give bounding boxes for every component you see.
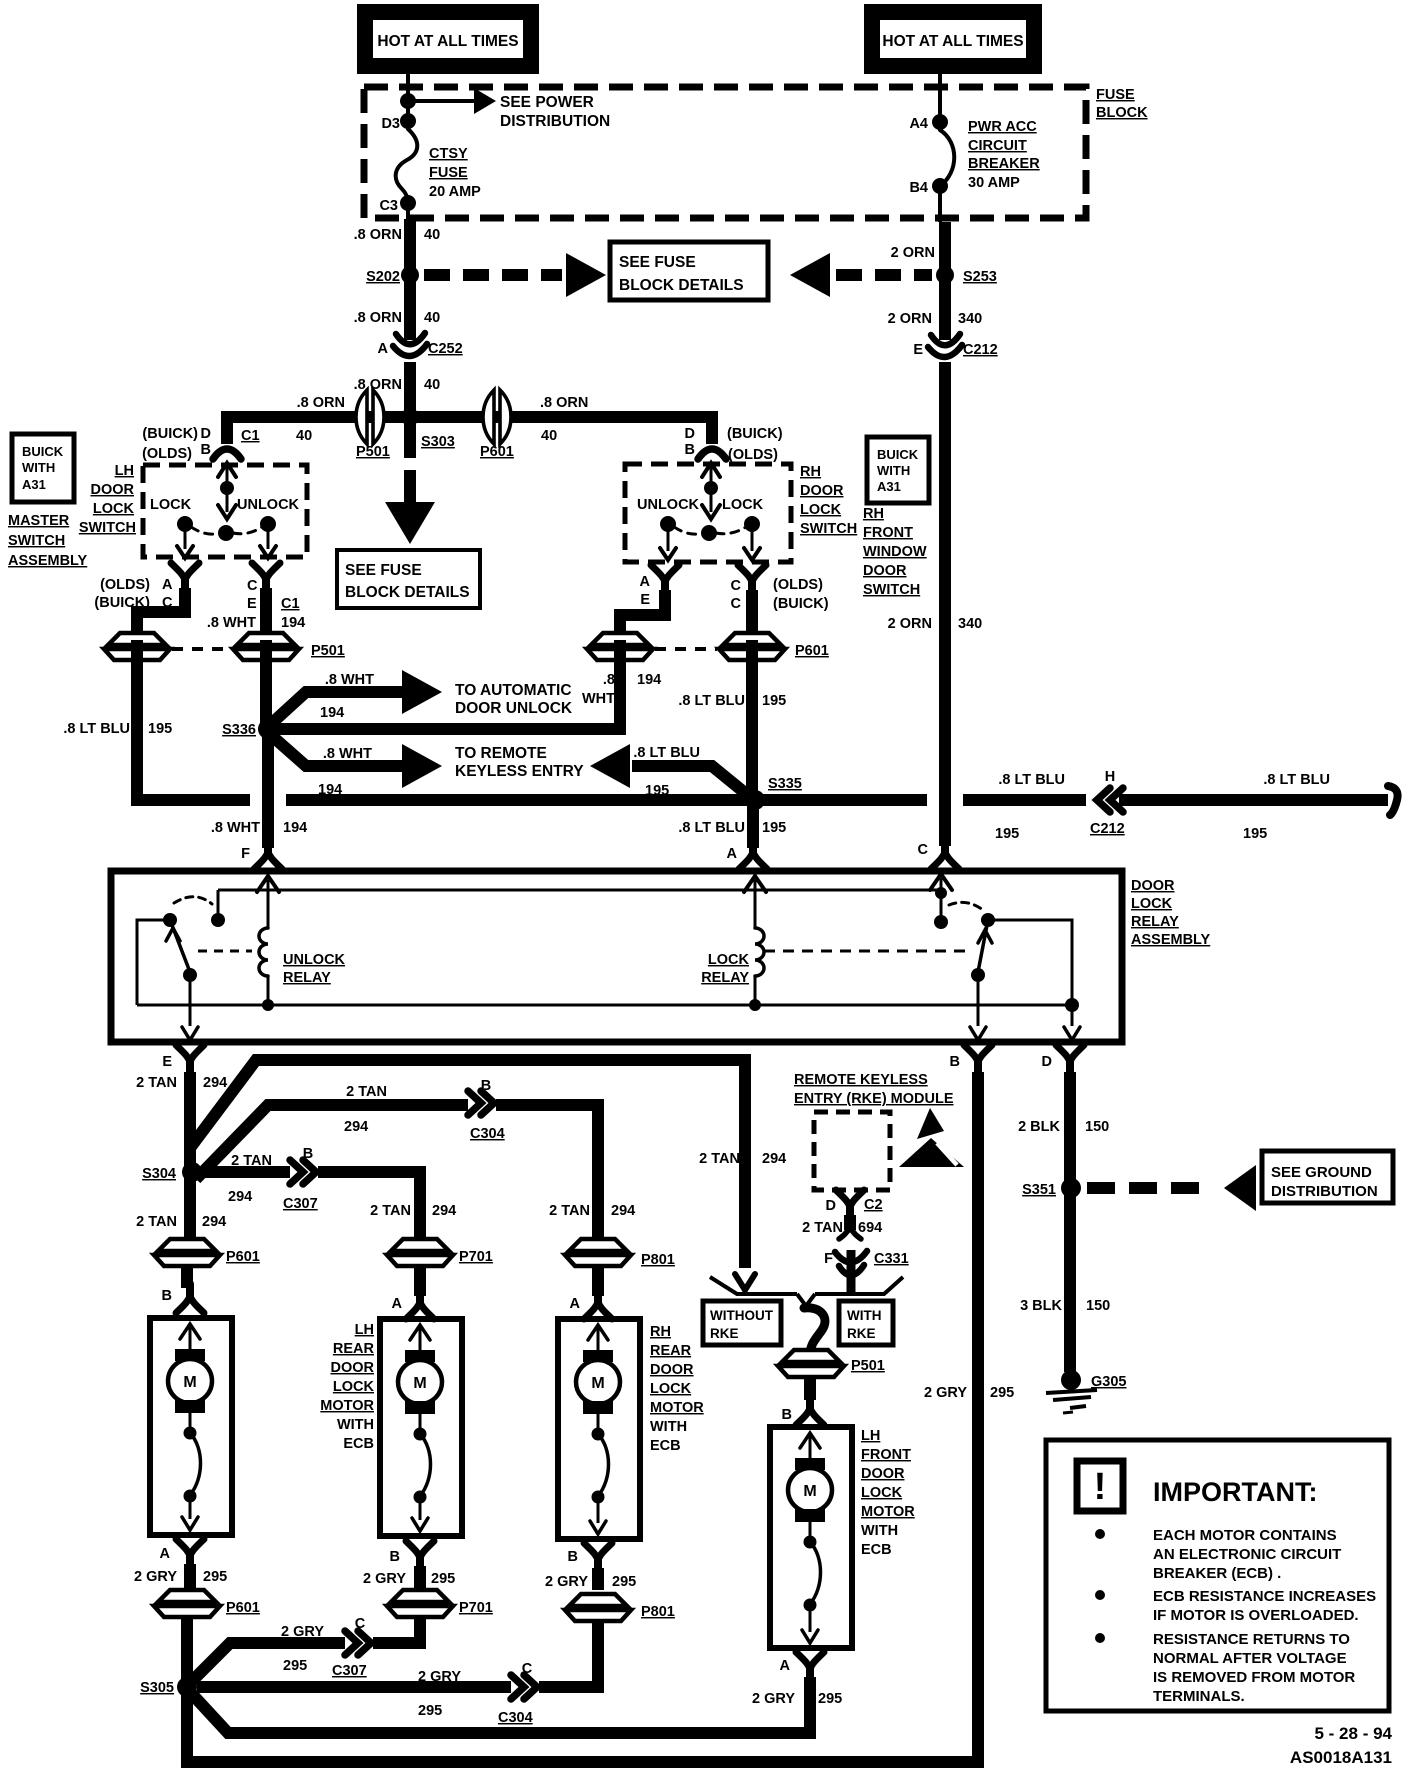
svg-text:S304: S304 (142, 1166, 176, 1182)
unlock output to pin E (189, 979, 192, 1026)
branch via C304 to P801 return (197, 1622, 598, 1687)
RKE option bracket (710, 1277, 797, 1294)
relay pin F terminal (264, 840, 272, 854)
svg-text:B: B (303, 1146, 313, 1162)
svg-text:294: 294 (203, 1075, 227, 1091)
svg-text:IS REMOVED FROM MOTOR: IS REMOVED FROM MOTOR (1153, 1669, 1355, 1686)
wire drop to LH switch pin D/B (221, 411, 233, 444)
svg-text:295: 295 (990, 1385, 1014, 1401)
svg-text:A: A (392, 1296, 403, 1312)
relay pin C entry arrow (930, 874, 952, 890)
relay pin A entry arrow (744, 876, 766, 892)
svg-text:150: 150 (1086, 1298, 1110, 1314)
RH switch pin C/C terminal (748, 580, 756, 594)
svg-text:ENTRY (RKE) MODULE: ENTRY (RKE) MODULE (794, 1091, 954, 1107)
power tag HOT AT ALL TIMES (right) (864, 4, 1042, 74)
svg-text:M: M (183, 1374, 196, 1391)
LH switch UNLOCK output arrow (267, 529, 270, 549)
svg-text:C307: C307 (332, 1663, 367, 1679)
svg-text:SWITCH: SWITCH (800, 521, 857, 537)
splice S253 (936, 266, 954, 284)
RH switch UNLOCK contact (660, 516, 676, 532)
svg-text:S253: S253 (963, 269, 997, 285)
svg-text:C: C (355, 1616, 366, 1632)
svg-text:S305: S305 (140, 1680, 174, 1696)
svg-text:2 TAN: 2 TAN (136, 1214, 177, 1230)
svg-text:P501: P501 (311, 643, 345, 659)
arrow SEE POWER DISTRIBUTION (408, 99, 474, 103)
branch via C307 to P701 return (192, 1618, 420, 1681)
arrow from S335 to remote keyless entry (590, 744, 630, 788)
svg-text:194: 194 (320, 705, 344, 721)
svg-text:2 TAN: 2 TAN (802, 1220, 843, 1236)
LH switch pin A/C terminal (181, 578, 189, 592)
main feed wire 2 ORN 340 down to relay terminal C (939, 362, 951, 846)
svg-text:C304: C304 (470, 1126, 505, 1142)
svg-text:UNLOCK: UNLOCK (637, 497, 700, 513)
svg-text:TERMINALS.: TERMINALS. (1153, 1688, 1245, 1705)
svg-text:B: B (162, 1288, 172, 1304)
branch to C304 (196, 1105, 598, 1240)
svg-text:194: 194 (281, 615, 305, 631)
svg-text:C: C (731, 578, 742, 594)
svg-text:M: M (803, 1483, 816, 1500)
svg-text:40: 40 (541, 428, 557, 444)
grommet P601 (LR feed) (154, 1239, 220, 1266)
LH front motor pin A terminal (806, 1667, 814, 1681)
svg-text:P501: P501 (851, 1358, 885, 1374)
svg-text:D3: D3 (381, 116, 400, 132)
lock relay coil bottom node (749, 999, 761, 1011)
svg-text:FUSE: FUSE (1096, 87, 1135, 103)
svg-text:S335: S335 (768, 776, 802, 792)
svg-text:.8 ORN: .8 ORN (354, 377, 402, 393)
svg-text:DOOR: DOOR (1131, 878, 1175, 894)
svg-text:.8 LT BLU: .8 LT BLU (678, 820, 745, 836)
svg-text:A31: A31 (22, 477, 46, 492)
svg-text:.8 ORN: .8 ORN (354, 310, 402, 326)
svg-text:EACH MOTOR CONTAINS: EACH MOTOR CONTAINS (1153, 1527, 1337, 1544)
svg-text:C307: C307 (283, 1196, 318, 1212)
svg-text:(BUICK): (BUICK) (773, 596, 829, 612)
svg-text:AN ELECTRONIC CIRCUIT: AN ELECTRONIC CIRCUIT (1153, 1546, 1341, 1563)
svg-text:3 BLK: 3 BLK (1020, 1298, 1062, 1314)
dashed arrow S253 to SEE FUSE BLOCK DETAILS (836, 269, 932, 281)
svg-text:P801: P801 (641, 1252, 675, 1268)
svg-text:NORMAL AFTER VOLTAGE: NORMAL AFTER VOLTAGE (1153, 1650, 1347, 1667)
grommet P801 (feed) (565, 1239, 631, 1266)
RKE module dashed box (814, 1112, 890, 1190)
svg-text:FRONT: FRONT (863, 525, 913, 541)
svg-text:SWITCH: SWITCH (8, 533, 65, 549)
svg-text:C331: C331 (874, 1251, 909, 1267)
svg-text:RH: RH (650, 1324, 671, 1340)
svg-text:194: 194 (283, 820, 307, 836)
svg-text:B: B (950, 1054, 960, 1070)
grommet P501 left pair (104, 633, 170, 660)
unlock relay coil bottom node (262, 999, 274, 1011)
svg-text:S202: S202 (366, 269, 400, 285)
svg-text:BUICK: BUICK (22, 444, 64, 459)
svg-text:WITH: WITH (337, 1417, 374, 1433)
svg-text:C212: C212 (963, 342, 998, 358)
unlock switch blade (170, 920, 190, 972)
svg-text:(OLDS): (OLDS) (728, 447, 778, 463)
svg-text:F: F (824, 1251, 833, 1267)
svg-text:(OLDS): (OLDS) (100, 577, 150, 593)
svg-text:40: 40 (296, 428, 312, 444)
left rail to bottom bus (137, 920, 170, 1005)
tag box BUICK WITH A31 (right) (867, 437, 929, 503)
svg-text:.8 LT BLU: .8 LT BLU (63, 721, 130, 737)
svg-text:A: A (727, 846, 738, 862)
svg-text:MASTER: MASTER (8, 513, 70, 529)
lock switch fixed contact (934, 915, 948, 929)
svg-text:P601: P601 (226, 1600, 260, 1616)
svg-text:DOOR UNLOCK: DOOR UNLOCK (455, 700, 573, 717)
svg-text:.8 WHT: .8 WHT (323, 746, 372, 762)
lock switch blade (978, 920, 988, 972)
svg-text:WITHOUT: WITHOUT (710, 1308, 774, 1323)
relay pin C terminal (941, 840, 949, 854)
svg-text:C304: C304 (498, 1710, 533, 1726)
svg-text:RKE: RKE (710, 1326, 739, 1341)
connector C1 at RH switch (698, 449, 726, 459)
svg-text:2 ORN: 2 ORN (891, 245, 935, 261)
svg-text:294: 294 (611, 1203, 635, 1219)
svg-text:A: A (160, 1546, 171, 1562)
RH switch common terminal arrows (702, 463, 720, 477)
svg-text:S303: S303 (421, 434, 455, 450)
svg-text:LOCK: LOCK (333, 1379, 375, 1395)
relay pin B terminal (974, 1060, 982, 1074)
svg-text:RKE: RKE (847, 1326, 876, 1341)
RKE pin D terminal C2 (846, 1205, 854, 1219)
svg-text:S336: S336 (222, 722, 256, 738)
svg-text:P701: P701 (459, 1600, 493, 1616)
svg-text:DOOR: DOOR (91, 482, 135, 498)
wire 2 GRY 295 from relay pin B (972, 1072, 984, 1768)
svg-text:LOCK: LOCK (1131, 896, 1173, 912)
svg-text:2 GRY: 2 GRY (418, 1669, 461, 1685)
relay pin A terminal (749, 840, 757, 854)
wire .8 ORN 40 below S202 (404, 280, 416, 340)
grommet P501 (LH front feed) (778, 1350, 844, 1377)
svg-text:2 ORN: 2 ORN (888, 311, 932, 327)
svg-text:SEE FUSE: SEE FUSE (619, 254, 696, 271)
svg-text:LH: LH (861, 1428, 880, 1444)
grommet P801 (return) (565, 1594, 631, 1621)
branch to LH front motor pin A (192, 1681, 810, 1733)
svg-text:WINDOW: WINDOW (863, 544, 927, 560)
svg-text:40: 40 (424, 377, 440, 393)
grommet P601 right pair (587, 633, 653, 660)
svg-text:D: D (685, 426, 695, 442)
splice S351 (1061, 1178, 1081, 1198)
svg-text:P601: P601 (480, 444, 514, 460)
wire .8 ORN 40 below fuse block (404, 219, 416, 270)
wire 2 GRY 295 below motor 1 (184, 1564, 196, 1590)
wire from P601 return to S305 (181, 1616, 193, 1687)
svg-text:ASSEMBLY: ASSEMBLY (8, 553, 88, 569)
svg-text:P801: P801 (641, 1604, 675, 1620)
wire 3 BLK 150 below S351 (1064, 1192, 1076, 1372)
svg-text:A: A (780, 1658, 791, 1674)
svg-text:REMOTE KEYLESS: REMOTE KEYLESS (794, 1072, 928, 1088)
svg-text:WITH: WITH (861, 1523, 898, 1539)
wire 2 TAN 294 from pin E (184, 1072, 196, 1176)
svg-text:C2: C2 (864, 1197, 883, 1213)
svg-text:2 BLK: 2 BLK (1018, 1119, 1060, 1135)
svg-text:.8 WHT: .8 WHT (207, 615, 256, 631)
unlock switch fixed contact (217, 890, 220, 916)
connector C307 pin C (return) (345, 1635, 373, 1652)
svg-text:295: 295 (431, 1571, 455, 1587)
svg-text:.8 LT BLU: .8 LT BLU (678, 693, 745, 709)
svg-text:.8 LT BLU: .8 LT BLU (1263, 772, 1330, 788)
right rail from pivot to pin D (988, 920, 1072, 1026)
grommet P701 (feed) (387, 1239, 453, 1266)
unlock relay actuation link (198, 950, 252, 953)
svg-text:DISTRIBUTION: DISTRIBUTION (1271, 1183, 1378, 1200)
ground G305 (1061, 1370, 1081, 1390)
svg-text:340: 340 (958, 616, 982, 632)
relay pin D terminal (1066, 1060, 1074, 1074)
svg-text:SWITCH: SWITCH (863, 582, 920, 598)
svg-text:20 AMP: 20 AMP (429, 184, 481, 200)
svg-text:2 GRY: 2 GRY (363, 1571, 406, 1587)
svg-text:30 AMP: 30 AMP (968, 175, 1020, 191)
wire .8 ORN horizontal run to door lock switches (227, 411, 712, 423)
RH switch LOCK output arrow (751, 529, 754, 551)
splice S305 (177, 1677, 197, 1697)
svg-text:ECB: ECB (343, 1436, 374, 1452)
wire .8 LT BLU 195 to relay pin A (747, 805, 759, 848)
svg-text:C: C (731, 596, 742, 612)
unlock relay coil (259, 928, 268, 976)
svg-text:(OLDS): (OLDS) (773, 577, 823, 593)
node C to top bus (935, 887, 947, 899)
svg-text:E: E (162, 1054, 172, 1070)
svg-text:694: 694 (858, 1220, 882, 1236)
svg-text:B: B (390, 1549, 400, 1565)
svg-text:295: 295 (203, 1569, 227, 1585)
svg-text:LH: LH (115, 463, 134, 479)
svg-text:ASSEMBLY: ASSEMBLY (1131, 932, 1211, 948)
splice S304 (182, 1162, 202, 1182)
wire from pin A/E down-left (620, 590, 665, 634)
svg-text:A31: A31 (877, 479, 901, 494)
inline connector P601 (483, 390, 511, 444)
svg-text:2 GRY: 2 GRY (281, 1624, 324, 1640)
wire end hook at page edge (1388, 786, 1398, 815)
svg-text:PWR ACC: PWR ACC (968, 119, 1037, 135)
inline connector P501 (356, 390, 384, 444)
svg-text:2 GRY: 2 GRY (924, 1385, 967, 1401)
wire drop to RH switch pin D/B (706, 411, 718, 444)
option tag WITHOUT RKE (703, 1301, 781, 1345)
wire from pin C/C down (746, 590, 758, 634)
motor (front door lock motor, leftmost) (150, 1318, 232, 1535)
svg-text:195: 195 (995, 826, 1019, 842)
svg-text:M: M (591, 1375, 604, 1392)
svg-text:H: H (1105, 769, 1115, 785)
svg-text:MOTOR: MOTOR (320, 1398, 374, 1414)
LH switch LOCK output arrow (184, 529, 187, 549)
connector C304 pin C (return) (511, 1679, 539, 1696)
svg-text:S351: S351 (1022, 1182, 1056, 1198)
svg-text:295: 295 (818, 1691, 842, 1707)
wire .8 WHT from RH pin A/E to S336 (277, 640, 620, 729)
branch to without-RKE feed (190, 1060, 745, 1268)
LH switch UNLOCK contact (260, 516, 276, 532)
RH switch wiper pivot (701, 525, 717, 541)
wire 2 BLK 150 from relay pin D (1064, 1072, 1076, 1184)
lock switch throw arc (949, 902, 983, 910)
svg-text:2 GRY: 2 GRY (752, 1691, 795, 1707)
motor 1 pin A terminal (186, 1554, 194, 1568)
callout box SEE FUSE BLOCK DETAILS (lower) (337, 550, 480, 608)
branch arrow TO REMOTE KEYLESS ENTRY (272, 736, 402, 766)
callout box SEE GROUND DISTRIBUTION (1262, 1151, 1393, 1203)
wire 2 ORN 340 below S253 (939, 280, 951, 340)
svg-text:G305: G305 (1091, 1374, 1126, 1390)
branch to C307 (201, 1172, 420, 1240)
svg-text:C1: C1 (281, 596, 300, 612)
svg-text:DOOR: DOOR (861, 1466, 905, 1482)
svg-text:294: 294 (228, 1189, 252, 1205)
svg-text:B: B (568, 1549, 578, 1565)
svg-text:5 - 28 - 94: 5 - 28 - 94 (1315, 1724, 1393, 1743)
svg-text:.8 LT BLU: .8 LT BLU (998, 772, 1065, 788)
wire .8 LT BLU from RH pin C/C to S335 (746, 640, 758, 800)
svg-text:C252: C252 (428, 341, 463, 357)
svg-text:C: C (247, 578, 258, 594)
svg-text:2 TAN: 2 TAN (346, 1084, 387, 1100)
connector C212 pin H (1097, 788, 1110, 812)
svg-text:D: D (201, 426, 211, 442)
svg-text:.8 WHT: .8 WHT (325, 672, 374, 688)
svg-text:(OLDS): (OLDS) (142, 446, 192, 462)
svg-text:A4: A4 (909, 116, 928, 132)
svg-text:195: 195 (762, 820, 786, 836)
grommet P701 (return) (387, 1590, 453, 1617)
svg-text:LOCK: LOCK (708, 952, 750, 968)
svg-text:C: C (918, 842, 929, 858)
svg-text:DOOR: DOOR (331, 1360, 375, 1376)
svg-text:BLOCK: BLOCK (1096, 105, 1148, 121)
svg-text:2 TAN: 2 TAN (136, 1075, 177, 1091)
svg-text:UNLOCK: UNLOCK (237, 497, 300, 513)
svg-text:AS0018A131: AS0018A131 (1290, 1748, 1392, 1767)
svg-text:SEE FUSE: SEE FUSE (345, 562, 422, 579)
svg-text:UNLOCK: UNLOCK (283, 952, 346, 968)
callout box SEE FUSE BLOCK DETAILS (top) (610, 242, 768, 300)
svg-text:294: 294 (762, 1151, 786, 1167)
svg-text:194: 194 (637, 672, 661, 688)
svg-text:2 GRY: 2 GRY (134, 1569, 177, 1585)
motor LH REAR DOOR LOCK MOTOR WITH ECB (380, 1319, 462, 1536)
svg-text:.8 WHT: .8 WHT (211, 820, 260, 836)
wire 2 TAN 694 (844, 1215, 856, 1230)
svg-text:2 TAN: 2 TAN (231, 1153, 272, 1169)
LH door lock switch dashed box (143, 465, 307, 557)
svg-text:ECB RESISTANCE INCREASES: ECB RESISTANCE INCREASES (1153, 1588, 1376, 1605)
wire 2 GRY 295 below motor 3 (592, 1568, 604, 1590)
arrow down to SEE FUSE BLOCK DETAILS (lower) (404, 423, 416, 458)
wire .8 WHT 194 to relay pin F (262, 734, 274, 848)
svg-text:LOCK: LOCK (861, 1485, 903, 1501)
lock relay coil (755, 928, 764, 976)
svg-text:C1: C1 (241, 428, 260, 444)
svg-text:.8 ORN: .8 ORN (354, 227, 402, 243)
RH switch pin A/E terminal (661, 580, 669, 594)
svg-text:WITH: WITH (847, 1308, 882, 1323)
fuse CTSY FUSE 20 AMP (396, 129, 418, 203)
ESD sensitivity symbol (917, 1108, 944, 1139)
wire .8 WHT from C/E to S336 (260, 640, 272, 729)
relay bottom bus (137, 1004, 1072, 1007)
splice S335 (745, 790, 765, 810)
svg-text:ECB: ECB (861, 1542, 892, 1558)
lock output to pin B (977, 979, 980, 1026)
svg-text:LOCK: LOCK (93, 501, 135, 517)
svg-text:295: 295 (612, 1574, 636, 1590)
grommet P601 (return) (154, 1590, 220, 1617)
svg-text:(BUICK): (BUICK) (142, 426, 198, 442)
node at top of CTSY fuse feed (400, 93, 416, 109)
svg-text:DOOR: DOOR (800, 483, 844, 499)
circuit breaker PWR ACC 30 AMP (940, 130, 954, 186)
svg-text:195: 195 (1243, 826, 1267, 842)
svg-text:.8 ORN: .8 ORN (540, 395, 588, 411)
power tag HOT AT ALL TIMES (left) (357, 4, 539, 74)
lock switch pivot (981, 913, 995, 927)
svg-text:RESISTANCE RETURNS TO: RESISTANCE RETURNS TO (1153, 1631, 1350, 1648)
tag box BUICK WITH A31 (left) (12, 434, 74, 502)
svg-text:KEYLESS ENTRY: KEYLESS ENTRY (455, 763, 584, 780)
svg-text:2 ORN: 2 ORN (888, 616, 932, 632)
svg-text:.8 ORN: .8 ORN (297, 395, 345, 411)
motor 2 pin B terminal (416, 1556, 424, 1570)
connector C331 pin F (839, 1227, 850, 1239)
svg-text:195: 195 (762, 693, 786, 709)
svg-text:IF MOTOR IS OVERLOADED.: IF MOTOR IS OVERLOADED. (1153, 1607, 1359, 1624)
svg-text:DOOR: DOOR (863, 563, 907, 579)
svg-text:C212: C212 (1090, 821, 1125, 837)
svg-text:WITH: WITH (877, 463, 910, 478)
svg-text:A: A (570, 1296, 581, 1312)
dashed arrow S202 to SEE FUSE BLOCK DETAILS (424, 269, 562, 281)
relay pin E terminal (186, 1060, 194, 1074)
return bus to relay pin B wire (187, 1692, 978, 1762)
RH switch UNLOCK output arrow (667, 529, 670, 551)
svg-text:294: 294 (432, 1203, 456, 1219)
svg-text:C3: C3 (379, 198, 398, 214)
svg-text:2 GRY: 2 GRY (545, 1574, 588, 1590)
svg-text:P601: P601 (795, 643, 829, 659)
svg-text:REAR: REAR (650, 1343, 692, 1359)
branch arrow TO AUTOMATIC DOOR UNLOCK (272, 692, 402, 723)
wire from left HOT tag (406, 74, 410, 122)
wire .8 LT BLU 195 left leg (131, 640, 143, 806)
svg-text:.8 LT BLU: .8 LT BLU (633, 745, 700, 761)
svg-text:DOOR: DOOR (650, 1362, 694, 1378)
svg-text:294: 294 (202, 1214, 226, 1230)
svg-text:E: E (913, 342, 923, 358)
svg-text:B: B (685, 442, 695, 458)
LH front motor pin B terminal (806, 1396, 814, 1410)
